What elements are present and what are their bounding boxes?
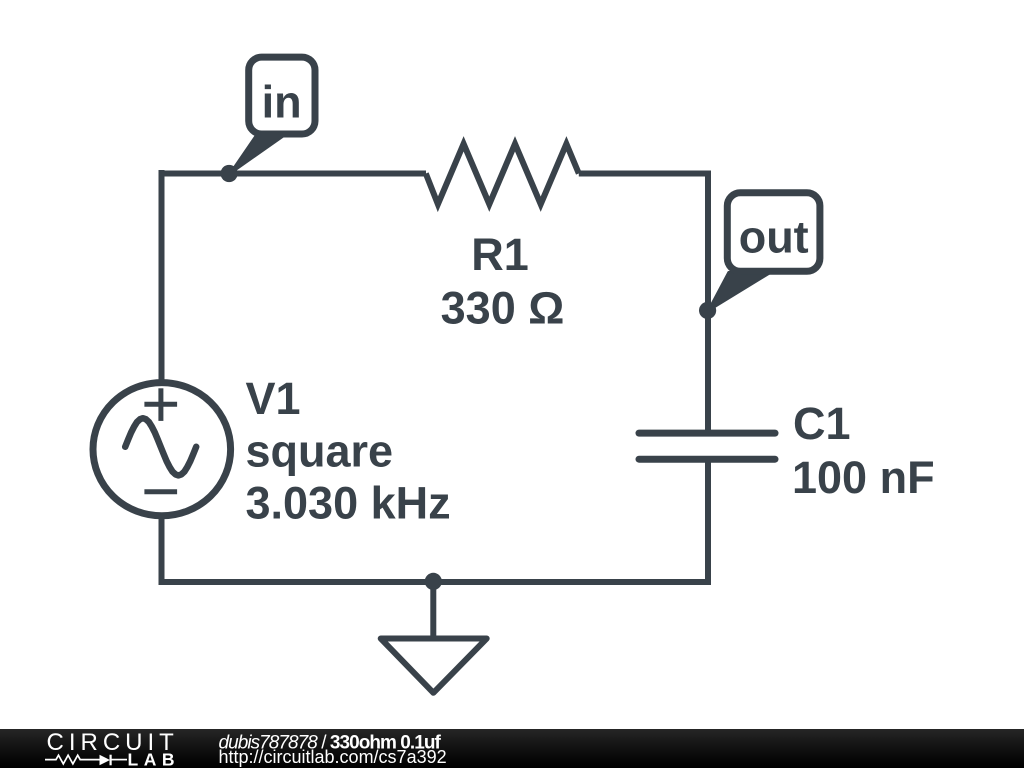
svg-text:LAB: LAB [128,749,180,768]
CircuitLab logo diode [100,755,111,766]
node ground dot [425,573,442,590]
node out dot [699,302,716,319]
callout box out [727,193,820,271]
V1 sine wave [125,418,196,475]
svg-text:100 nF: 100 nF [792,452,935,503]
wire top rail left of resistor [159,171,427,177]
node in dot [221,165,238,182]
svg-text:R1: R1 [471,229,529,280]
V1 plus sign [144,388,177,421]
svg-text:330 Ω: 330 Ω [441,283,565,334]
resistor R1 [426,144,579,204]
svg-text:V1: V1 [246,373,301,424]
callout box in [249,57,315,134]
V1 minus sign [144,489,177,494]
wire bottom rail right half [433,459,708,582]
svg-text:3.030 kHz: 3.030 kHz [246,478,451,529]
callout tail for in [229,135,286,175]
svg-text:out: out [739,212,809,263]
CircuitLab logo squiggle [45,755,127,766]
capacitor C1 plates [639,433,775,459]
svg-text:http://circuitlab.com/cs7a392: http://circuitlab.com/cs7a392 [219,747,447,767]
svg-text:square: square [246,426,394,477]
svg-text:in: in [262,77,302,128]
voltage source V1 circle [93,383,231,516]
svg-text:C1: C1 [793,398,851,449]
ground [381,582,487,693]
callout tail for out [708,272,772,311]
wire top-left vertical (in node to source) [159,170,165,381]
wire top rail right of resistor to out corner [579,174,708,434]
wire source bottom to bottom rail [162,515,434,582]
